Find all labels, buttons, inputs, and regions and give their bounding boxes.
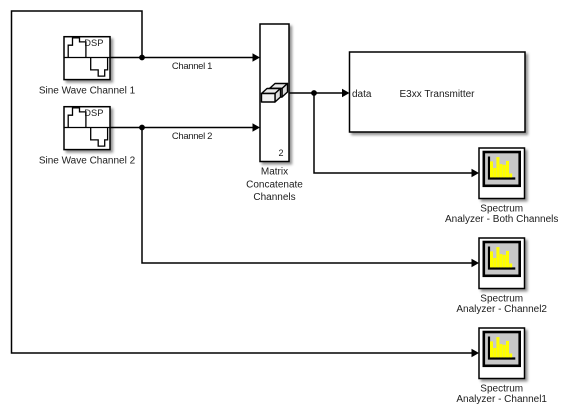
svg-text:Analyzer - Channel2: Analyzer - Channel2 — [456, 304, 547, 315]
svg-text:Spectrum: Spectrum — [480, 204, 523, 215]
svg-text:2: 2 — [278, 148, 283, 158]
svg-text:Channel 2: Channel 2 — [172, 131, 212, 142]
svg-text:Channels: Channels — [253, 192, 295, 203]
svg-text:Sine Wave Channel 1: Sine Wave Channel 1 — [39, 86, 136, 97]
svg-text:Concatenate: Concatenate — [246, 179, 303, 190]
svg-text:Analyzer - Channel1: Analyzer - Channel1 — [456, 394, 547, 405]
svg-text:Analyzer - Both Channels: Analyzer - Both Channels — [445, 214, 558, 225]
svg-text:Channel 1: Channel 1 — [172, 61, 212, 72]
svg-text:DSP: DSP — [84, 38, 103, 48]
svg-text:E3xx Transmitter: E3xx Transmitter — [399, 89, 475, 100]
svg-text:data: data — [352, 89, 372, 100]
svg-text:Matrix: Matrix — [261, 167, 288, 178]
svg-text:Spectrum: Spectrum — [480, 384, 523, 395]
svg-text:Sine Wave Channel 2: Sine Wave Channel 2 — [39, 156, 136, 167]
svg-text:Spectrum: Spectrum — [480, 294, 523, 305]
svg-text:DSP: DSP — [84, 108, 103, 118]
